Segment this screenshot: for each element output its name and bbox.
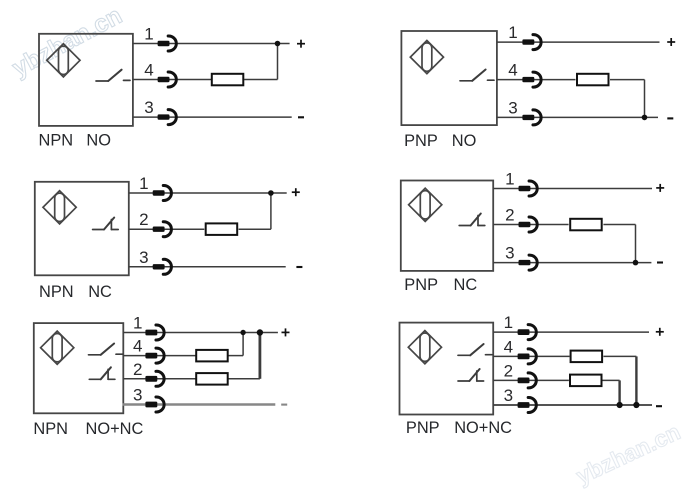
switch NO S1 [96,70,130,81]
connector pin 3 (U3) [153,259,172,274]
wire dropper 1 (U6) [635,356,637,405]
svg-text:NO: NO [452,132,477,150]
connector pin 2 (U5) [145,371,164,386]
wire riser to node [277,44,279,80]
sensor symbol U3 [43,191,76,224]
svg-text:2: 2 [139,210,148,229]
connector pin 2 (U6) [518,373,537,388]
wire pin1 to + rail [133,43,290,45]
svg-text:3: 3 [133,386,142,405]
connector pin 3 (U4) [519,255,538,270]
wire pin3 to - rail (U3) [129,266,286,268]
sensor symbol U2 [410,41,443,74]
wire pin1 to + rail (U6) [493,331,649,333]
svg-text:2: 2 [504,361,513,380]
svg-text:2: 2 [505,206,514,225]
resistor R6b (load NC) [570,375,602,387]
wire riser 2 thick (U5) [258,333,261,379]
wire pin3 to - rail (U6) [493,404,652,406]
switch NO S2 [460,70,494,81]
wire pin2 to resistor R5b [123,378,196,380]
sensor symbol U4 [409,188,442,221]
svg-text:3: 3 [505,244,514,263]
switch NC S6b [458,369,484,381]
connector pin 1 (U5) [145,325,164,340]
connector pin 1 (U2) [522,35,541,50]
svg-text:2: 2 [133,360,142,379]
wire resistor R3 to riser [239,228,271,230]
junction node F1 [617,402,623,408]
resistor R3 (load) [206,223,238,235]
resistor R5b (load NC) [196,373,228,385]
connector pin 1 (U1) [158,36,177,51]
wire pin2 to resistor R6b [493,379,569,381]
junction node C [268,190,274,196]
wire pin4 to resistor R6a [493,355,569,357]
junction node F2 [633,402,639,408]
sensor box U6 [400,323,494,415]
wire pin4 to resistor R2 [497,79,576,81]
switch NC S4 [459,214,485,226]
wire resistor R5a to riser 1 [228,355,243,357]
switch NO S5a [89,344,123,355]
plus terminal (+) D1 [297,40,305,48]
plus terminal (+) D5 [282,328,290,336]
svg-text:3: 3 [139,248,148,267]
plus terminal (+) D6 [656,328,664,336]
svg-text:NO+NC: NO+NC [454,419,512,437]
svg-text:NPN: NPN [39,132,74,150]
junction node B [642,115,648,121]
switch NC S3 [93,218,119,230]
connector pin 3 (U2) [522,110,541,125]
svg-text:1: 1 [504,313,513,332]
resistor R1 (load) [212,74,244,86]
resistor R4 (load) [570,219,602,231]
resistor R6a (load NO) [571,351,603,363]
svg-text:NC: NC [454,276,478,294]
connector pin 2 (U4) [519,217,538,232]
svg-text:4: 4 [144,61,153,80]
wire riser to node C [270,193,272,229]
sensor box U4 [401,181,493,271]
svg-text:3: 3 [508,98,517,117]
plus terminal (+) D3 [292,188,300,196]
svg-text:NO+NC: NO+NC [86,420,144,438]
sensor symbol U1 [47,44,80,77]
connector pin 1 (U4) [519,181,538,196]
connector pin 4 (U5) [145,348,164,363]
plus terminal (+) D2 [667,38,675,46]
wire riser 1 (U5) [242,333,244,356]
wire pin2 to resistor R4 [493,224,568,226]
wire resistor R4 to dropper [603,224,635,226]
svg-text:ybzhan.cn: ybzhan.cn [572,418,684,489]
junction node E2 [257,329,263,335]
wire pin3 to - rail (U4) [493,262,651,264]
resistor R5a (load NO) [196,350,228,362]
wire pin2 to resistor R3 [129,228,205,230]
junction node D [633,260,639,266]
connector pin 4 (U1) [158,72,177,87]
wire pin3 to - rail [133,116,292,118]
minus terminal (-) D1 [298,116,304,118]
svg-text:PNP: PNP [404,132,438,150]
svg-text:4: 4 [508,61,517,80]
svg-text:3: 3 [144,98,153,117]
wire resistor R6a to dropper 1 [603,355,636,357]
sensor symbol U6 [408,331,441,364]
plus terminal (+) D4 [656,184,664,192]
connector pin 4 (U2) [522,72,541,87]
svg-text:PNP: PNP [406,419,440,437]
svg-text:1: 1 [139,174,148,193]
connector pin 4 (U6) [518,349,537,364]
wire pin1 to + rail (U2) [497,41,660,43]
sensor box U3 [35,182,129,275]
svg-text:1: 1 [144,25,153,44]
sensor box U2 [401,31,497,125]
wire dropper to pin3 net (U2) [644,80,646,118]
connector pin 1 (U6) [518,325,537,340]
wire pin4 to resistor R1 [133,79,211,81]
connector pin 2 (U3) [153,222,172,237]
svg-text:4: 4 [504,337,513,356]
wire resistor R5b to riser 2 [228,378,260,380]
wire resistor R1 to riser [244,79,277,81]
wire resistor R6b to dropper 2 [603,379,620,381]
svg-text:1: 1 [505,170,514,189]
sensor box U5 [34,323,124,413]
connector pin 3 (U1) [158,110,177,125]
svg-text:NPN: NPN [39,283,74,301]
svg-text:1: 1 [508,23,517,42]
wire pin1 to + rail (U4) [493,188,652,190]
wire dropper 2 (U6) [618,380,620,405]
sensor symbol U5 [41,331,74,364]
switch NO S6a [458,344,492,355]
wire resistor R2 to dropper [610,79,645,81]
svg-text:4: 4 [133,337,142,356]
minus terminal (-) D4 [657,261,663,263]
junction node E1 [240,330,245,335]
svg-text:NO: NO [86,132,111,150]
minus terminal (-) D6 [656,405,662,407]
sensor box U1 [39,34,133,126]
minus terminal (-) D3 [296,266,302,268]
junction node A [275,41,281,47]
minus terminal (-) D5 [281,404,287,406]
wire pin3 to - rail (U2) [497,116,658,118]
svg-text:1: 1 [133,314,142,333]
wire pin4 to resistor R5a [123,355,196,357]
resistor R2 (load) [577,74,609,86]
svg-text:NC: NC [88,283,112,301]
svg-text:PNP: PNP [404,276,438,294]
svg-text:3: 3 [504,386,513,405]
minus terminal (-) D2 [667,117,673,119]
wire pin3 thick gray (U5) [123,403,276,406]
wire pin1 to + rail (U3) [129,192,287,194]
svg-text:NPN: NPN [33,420,68,438]
svg-text:ybzhan.cn: ybzhan.cn [8,2,126,82]
wire pin1 to + rail (U5) [123,332,278,334]
connector pin 3 (U5) [145,397,164,412]
connector pin 3 (U6) [518,398,537,413]
switch NC S5b [89,367,115,379]
wire dropper to pin3 net (U4) [635,225,637,263]
connector pin 1 (U3) [153,186,172,201]
